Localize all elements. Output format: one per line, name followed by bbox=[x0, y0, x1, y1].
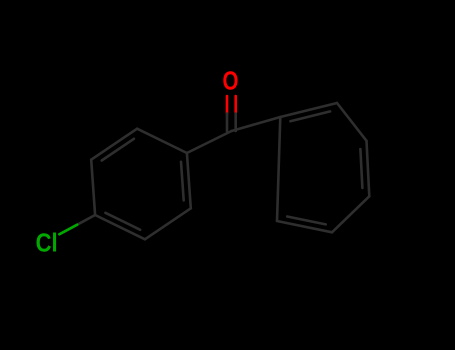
left ring aromatic inner line at C5-C6 bbox=[102, 139, 134, 161]
bond: carbonyl C to right ring ipso carbon bbox=[232, 117, 281, 131]
C=O double bond, oxygen-side halves (red) bbox=[227, 96, 236, 114]
right ring inner double-bond line at C3'-C4' bbox=[360, 149, 362, 188]
C-Cl bond, carbon-side half (gray) bbox=[77, 215, 95, 225]
left ring bond C2-C3 bbox=[145, 208, 191, 239]
right ring bond ipso C1'-C2' bbox=[280, 103, 337, 117]
left ring bond C5-C6 bbox=[91, 129, 137, 160]
C=O double bond, carbon-side halves (gray) bbox=[227, 114, 236, 132]
left ring bond ipso C1-C2 bbox=[187, 153, 191, 208]
left ring bond C3-C4 (Cl-bearing) bbox=[95, 215, 145, 239]
svg-text:Cl: Cl bbox=[36, 229, 58, 258]
left ring aromatic inner line at C3-C4 (Cl-bearing) bbox=[105, 213, 140, 230]
left ring bond C4 (Cl-bearing)-C5 bbox=[91, 160, 95, 215]
right ring bond C4'-C5' bbox=[332, 196, 369, 232]
chlorine atom label Cl bbox=[36, 229, 58, 258]
svg-text:O: O bbox=[223, 66, 239, 95]
right ring bond C6'-ipso C1' bbox=[277, 117, 280, 221]
oxygen atom label O bbox=[223, 66, 239, 95]
left ring bond C6-ipso C1 bbox=[137, 129, 187, 153]
right ring bond C5'-C6' bbox=[277, 221, 332, 232]
bond: carbonyl C to left ring ipso carbon bbox=[187, 131, 232, 153]
left ring aromatic inner line at ipso C1-C2 bbox=[181, 162, 184, 201]
right ring inner double-bond line at C5'-C6' bbox=[287, 217, 326, 225]
right ring bond C2'-C3' bbox=[337, 103, 367, 141]
right ring bond C3'-C4' bbox=[367, 141, 370, 197]
C-Cl bond, chlorine-side half (green) bbox=[59, 225, 77, 235]
right ring inner double-bond line at ipso C1'-C2' bbox=[290, 111, 330, 121]
